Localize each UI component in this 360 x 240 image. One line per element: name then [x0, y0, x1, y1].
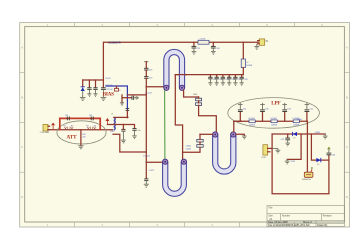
svg-text:C30: C30: [216, 48, 219, 50]
capacitor C2 stack: [196, 101, 202, 106]
svg-text:C34: C34: [310, 108, 313, 110]
svg-text:C0402: C0402: [186, 145, 191, 147]
net label POR: [291, 161, 296, 163]
svg-text:L-C0402: L-C0402: [270, 118, 277, 120]
net label T1A: [145, 91, 153, 94]
ground for C17: [101, 97, 107, 100]
ellipse LPF group: [228, 98, 320, 129]
ground for C16: [93, 94, 97, 97]
wire resonator feed down between legs: [175, 75, 182, 160]
inductor L3 choke: [114, 117, 116, 129]
capacitor C35 with ground: [281, 134, 291, 146]
net label NET3: [143, 154, 151, 157]
capacitor C14 end of bus: [126, 108, 130, 117]
wire T2 right pad link: [183, 147, 200, 152]
svg-text:A: A: [21, 46, 23, 50]
svg-text:CON2: CON2: [261, 157, 266, 159]
wire detector row: [272, 133, 325, 135]
svg-text:C18: C18: [149, 69, 152, 71]
svg-text:Date: 26-Dec-2008: Date: 26-Dec-2008: [268, 221, 288, 224]
svg-text:C31: C31: [243, 108, 246, 110]
svg-text:0: 0: [119, 90, 120, 92]
svg-text:L-C0402: L-C0402: [248, 118, 255, 120]
ground at detector row end: [323, 134, 328, 139]
svg-text:File: E:\Work\RF\80MHZ-AMP-LP: File: E:\Work\RF\80MHZ-AMP-LPF2.Sch: [268, 224, 310, 227]
svg-text:D3: D3: [317, 164, 319, 166]
ground for P1: [254, 44, 259, 50]
svg-text:40M┤: 40M┤: [297, 118, 302, 121]
pad T1 left: [164, 85, 169, 90]
svg-text:40MHZ-A: 40MHZ-A: [302, 178, 311, 181]
wire net IN2 branch: [113, 134, 146, 152]
svg-text:C36: C36: [332, 154, 335, 156]
svg-text:100: 100: [137, 130, 140, 132]
power port VCC at input: [51, 123, 55, 130]
wire T3 right pad to LPF: [234, 121, 242, 132]
inductor L6: [292, 118, 299, 126]
diode D3: [316, 158, 320, 166]
wire stack to T3 left pad horizontal: [200, 133, 213, 135]
svg-text:C1608X7R: C1608X7R: [108, 41, 120, 44]
svg-text:C35: C35: [281, 139, 284, 141]
svg-text:D: D: [21, 195, 23, 199]
resistor R1 pad pair: [64, 127, 73, 131]
wire to resonator T1 left pad: [146, 86, 164, 88]
capacitor C13 on bypass: [89, 115, 93, 120]
wire T3 right pad stub to ground: [236, 134, 244, 136]
diode D2: [293, 132, 297, 140]
text LPF: [271, 101, 280, 107]
net label 40M: [297, 118, 302, 121]
ground row for C21-C26: [208, 83, 244, 86]
pad T2 right: [181, 159, 186, 164]
svg-text:ATT: ATT: [66, 135, 77, 141]
ground for D1: [80, 97, 86, 100]
svg-text:L2: L2: [246, 62, 248, 64]
ground for C30: [211, 51, 216, 54]
wire D3 row: [311, 134, 329, 160]
svg-text:R1: R1: [63, 126, 65, 128]
diode D1: [81, 80, 85, 97]
resistor R21 with ground: [120, 95, 124, 106]
no-erc marker at Y1: [311, 167, 313, 172]
svg-text:CON-SMA: CON-SMA: [40, 131, 50, 134]
capacitor C1 stack: [196, 97, 202, 101]
capacitor C32 shunt: [260, 103, 268, 121]
junction collector: [127, 116, 129, 118]
ellipse ATT group: [57, 121, 106, 144]
capacitor C36: [327, 150, 336, 161]
svg-text:R4: R4: [94, 126, 96, 128]
bus bias blue wire: [105, 86, 127, 111]
connector P1: [258, 39, 270, 45]
wire crystal feed: [306, 121, 308, 172]
wire bottom loop: [272, 134, 329, 194]
resonator T1 tube: [164, 49, 185, 87]
wire LPF rail: [234, 120, 308, 122]
svg-text:C32: C32: [265, 108, 268, 110]
capacitor C10 with ground: [121, 125, 126, 143]
capacitor C22: [215, 75, 223, 83]
value label R18: [106, 78, 111, 80]
svg-text:B: B: [346, 95, 348, 99]
capacitor C34 shunt: [305, 103, 313, 121]
capacitor C3 stack: [197, 134, 203, 142]
capacitor C4 stack: [197, 142, 203, 147]
text ATT: [66, 135, 77, 141]
svg-text:B: B: [21, 95, 23, 99]
ground POR: [285, 159, 290, 164]
capacitor C20 with ground: [144, 162, 155, 187]
svg-text:Sheet of: Sheet of: [303, 221, 312, 224]
svg-text:C29: C29: [197, 48, 200, 50]
wire collector row: [114, 116, 128, 118]
wire ATT bypass: [60, 118, 100, 129]
svg-text:BIAS: BIAS: [103, 91, 115, 97]
svg-text:C: C: [346, 145, 348, 149]
svg-text:Drawn By:: Drawn By:: [317, 224, 328, 227]
wire feedback: [127, 94, 146, 96]
pad T2 left: [163, 159, 168, 164]
svg-text:B-1608: B-1608: [246, 65, 252, 67]
capacitor C21: [208, 75, 216, 83]
value label R19: [106, 85, 114, 87]
capacitor C26: [240, 75, 248, 83]
wire green link: [164, 90, 166, 159]
svg-text:Number: Number: [282, 214, 290, 217]
svg-text:C: C: [21, 145, 23, 149]
wire POR branch: [287, 134, 301, 159]
capacitor C25: [233, 75, 241, 83]
svg-text:C26: C26: [244, 79, 247, 81]
svg-text:C33: C33: [287, 108, 290, 110]
capacitor C24: [227, 75, 235, 83]
power port at C36: [327, 147, 331, 150]
net label IN2: [110, 130, 115, 133]
power chain cap C18 C19: [144, 62, 152, 87]
svg-text:├C-104: ├C-104: [143, 154, 151, 157]
svg-text:R2: R2: [71, 126, 73, 128]
svg-text:R-103: R-103: [106, 78, 111, 80]
label L3: [111, 114, 113, 116]
svg-text:Size: Size: [268, 215, 273, 217]
wire stack to T3 left pad: [199, 105, 217, 132]
resonator T2 tube: [163, 162, 187, 196]
svg-text:C19: C19: [149, 78, 152, 80]
net label POUT: [315, 132, 320, 134]
inductor L4: [248, 118, 255, 126]
capacitor C30: [211, 42, 220, 51]
wire crossing over T1 leg: [175, 74, 186, 76]
value label 1608: [193, 94, 197, 96]
resonator T3 tube: [213, 135, 236, 174]
svg-text:1608: 1608: [193, 94, 197, 96]
capacitor C12 on bypass: [65, 115, 69, 120]
capacitor C31 shunt: [238, 103, 246, 121]
crystal Y1: [302, 172, 313, 181]
svg-text:L-C1608: L-C1608: [198, 39, 205, 41]
capacitor C15: [87, 80, 91, 94]
inductor L5: [270, 118, 277, 126]
ground for C29: [192, 51, 197, 54]
net label C0402 pair: [186, 145, 191, 150]
inductor L2 feed: [241, 42, 252, 74]
svg-text:A: A: [346, 46, 348, 50]
svg-text:200: 200: [82, 137, 85, 139]
svg-text:103: 103: [89, 115, 92, 117]
svg-text:Revision: Revision: [323, 215, 333, 217]
fuse F1 on rail: [198, 39, 209, 45]
connector CON2: [261, 145, 272, 159]
net label VCC on rail: [108, 41, 120, 44]
sheet title block: [267, 206, 344, 228]
svg-text:D: D: [346, 195, 348, 199]
capacitor C11 with ground: [132, 129, 140, 139]
power port VCC at coil: [105, 118, 109, 125]
ground at CON2: [272, 148, 280, 153]
wire T1 right pad to stack: [184, 90, 199, 97]
svg-text:Title: Title: [268, 207, 273, 210]
svg-text:D2: D2: [293, 138, 295, 140]
label CON1: [40, 131, 50, 134]
capacitor C16: [93, 80, 97, 94]
capacitor C23: [221, 75, 229, 83]
pad T1 right: [179, 85, 184, 90]
svg-text:C0402: C0402: [315, 132, 320, 134]
svg-text:L3: L3: [111, 114, 113, 116]
svg-text:LQW18: LQW18: [293, 125, 299, 127]
svg-text:LQW18: LQW18: [249, 125, 255, 127]
svg-text:R3: R3: [86, 126, 88, 128]
connector CON1 RF in: [43, 124, 50, 131]
capacitor C17: [101, 80, 106, 97]
pad T3 right: [231, 132, 236, 137]
wire bias row: [83, 79, 104, 81]
ground for R5: [78, 146, 84, 149]
svg-text:103: 103: [65, 115, 68, 117]
wire choke feed: [107, 125, 134, 129]
capacitor C33 shunt: [282, 103, 290, 121]
svg-text:LQW18: LQW18: [271, 125, 277, 127]
value labels R1 R2: [63, 126, 73, 128]
text BIAS: [103, 91, 115, 97]
svg-text:C0402: C0402: [186, 149, 191, 151]
ground at T3: [242, 136, 247, 139]
svg-text:POR: POR: [291, 161, 296, 163]
wire amp supply row: [175, 74, 243, 76]
svg-text:C-471: C-471: [149, 170, 155, 172]
ground for C15: [87, 94, 91, 97]
wire ATT input row: [48, 129, 112, 131]
value label C17: [106, 89, 113, 91]
value labels R3 R4: [86, 126, 96, 128]
capacitor C29: [192, 42, 201, 51]
capacitor C13b with ground: [122, 96, 139, 100]
resistor R5 shunt: [81, 130, 86, 146]
pad T3 left: [213, 132, 218, 137]
wire VCC top rail: [103, 42, 258, 80]
resistor R20: [114, 86, 120, 92]
wire main vertical: [146, 87, 162, 163]
svg-text:LPF: LPF: [271, 101, 280, 107]
resistor R3 pad pair: [87, 127, 96, 131]
